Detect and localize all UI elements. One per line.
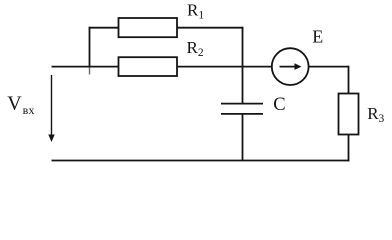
svg-text:C: C — [273, 95, 285, 115]
wire: middle vertical branch upper (top rail down to capacitor C) — [242, 27, 244, 104]
svg-text:R1: R1 — [187, 0, 204, 21]
Vвх input voltage arrow — [48, 75, 54, 142]
svg-text:R2: R2 — [187, 38, 204, 59]
wire: right vertical upper (rail down to R3 top pin) — [348, 66, 350, 94]
svg-text:R3: R3 — [367, 104, 384, 125]
wire: bottom rail — [52, 160, 350, 162]
resistor R2 — [119, 57, 178, 76]
wire: top rail right segment (R1 right pin to middle vertical) — [177, 27, 243, 29]
svg-text:Vвх: Vвх — [7, 92, 35, 117]
capacitor C top plate — [221, 103, 263, 105]
current source E arrow — [280, 63, 302, 70]
wire: right rail segment (current source E to right vertical) — [309, 66, 349, 68]
wire: input rail left segment (input terminal to R2 left pin) — [52, 66, 119, 68]
resistor R3 — [339, 94, 359, 135]
capacitor C bottom plate — [221, 113, 263, 115]
resistor R1 — [119, 18, 178, 37]
svg-text:E: E — [312, 27, 323, 47]
wire: top rail left segment (node junction to R1 left pin) — [89, 27, 119, 29]
current source E circle — [272, 48, 309, 85]
wire: right vertical lower (R3 bottom pin to bottom rail) — [348, 135, 350, 162]
wire: left vertical branch (top rail to input rail) — [89, 27, 91, 68]
wire: middle vertical branch lower (capacitor C down to bottom rail) — [242, 114, 244, 161]
wire: middle rail segment (R2 right pin to current source E) — [177, 66, 272, 68]
wire: left vertical gray stub below junction — [89, 67, 91, 74]
